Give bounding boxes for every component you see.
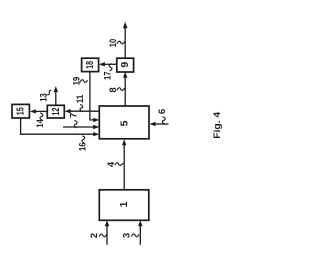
- arrow 7: [63, 125, 99, 129]
- block 18: [82, 58, 99, 71]
- svg-text:7: 7: [69, 113, 80, 118]
- leader 13: [46, 90, 51, 95]
- svg-text:12: 12: [50, 107, 62, 115]
- svg-text:18: 18: [84, 61, 96, 69]
- svg-text:15: 15: [15, 107, 27, 115]
- svg-text:17: 17: [103, 71, 114, 80]
- svg-text:1: 1: [118, 201, 130, 207]
- block 9: [117, 58, 134, 72]
- block 12: [47, 105, 64, 118]
- leader 11: [80, 104, 83, 112]
- wire 19: [90, 72, 99, 123]
- svg-text:11: 11: [75, 94, 86, 103]
- leader 14: [40, 113, 43, 121]
- arrow 2: [105, 220, 109, 245]
- leader 17: [109, 64, 112, 72]
- leader 4: [115, 163, 123, 166]
- leader 16: [82, 136, 85, 144]
- svg-text:2: 2: [89, 233, 100, 238]
- block 1: [99, 190, 149, 221]
- block 5: [99, 106, 149, 139]
- leader 8: [117, 88, 125, 91]
- leader 7: [74, 120, 77, 128]
- svg-text:6: 6: [157, 109, 168, 114]
- block 15: [12, 104, 29, 118]
- svg-text:5: 5: [119, 120, 131, 126]
- svg-text:Fig. 4: Fig. 4: [212, 112, 222, 139]
- wire 16: [21, 118, 100, 136]
- leader 2: [99, 234, 107, 237]
- arrow 8: [123, 72, 127, 106]
- leader 10: [117, 41, 125, 44]
- svg-text:9: 9: [119, 62, 131, 68]
- leader 19: [80, 80, 88, 83]
- leader 6: [162, 117, 165, 125]
- arrow 6: [150, 122, 169, 126]
- arrow 17: [99, 62, 117, 66]
- arrow 4: [122, 139, 126, 189]
- leader 3: [132, 234, 140, 237]
- arrow 14: [30, 109, 47, 113]
- svg-text:14: 14: [35, 119, 46, 128]
- svg-text:16: 16: [78, 143, 89, 152]
- arrow 13: [54, 86, 58, 105]
- arrow 3: [138, 220, 142, 245]
- svg-text:3: 3: [122, 233, 133, 238]
- arrow 11: [65, 109, 100, 113]
- arrow 10: [123, 22, 128, 58]
